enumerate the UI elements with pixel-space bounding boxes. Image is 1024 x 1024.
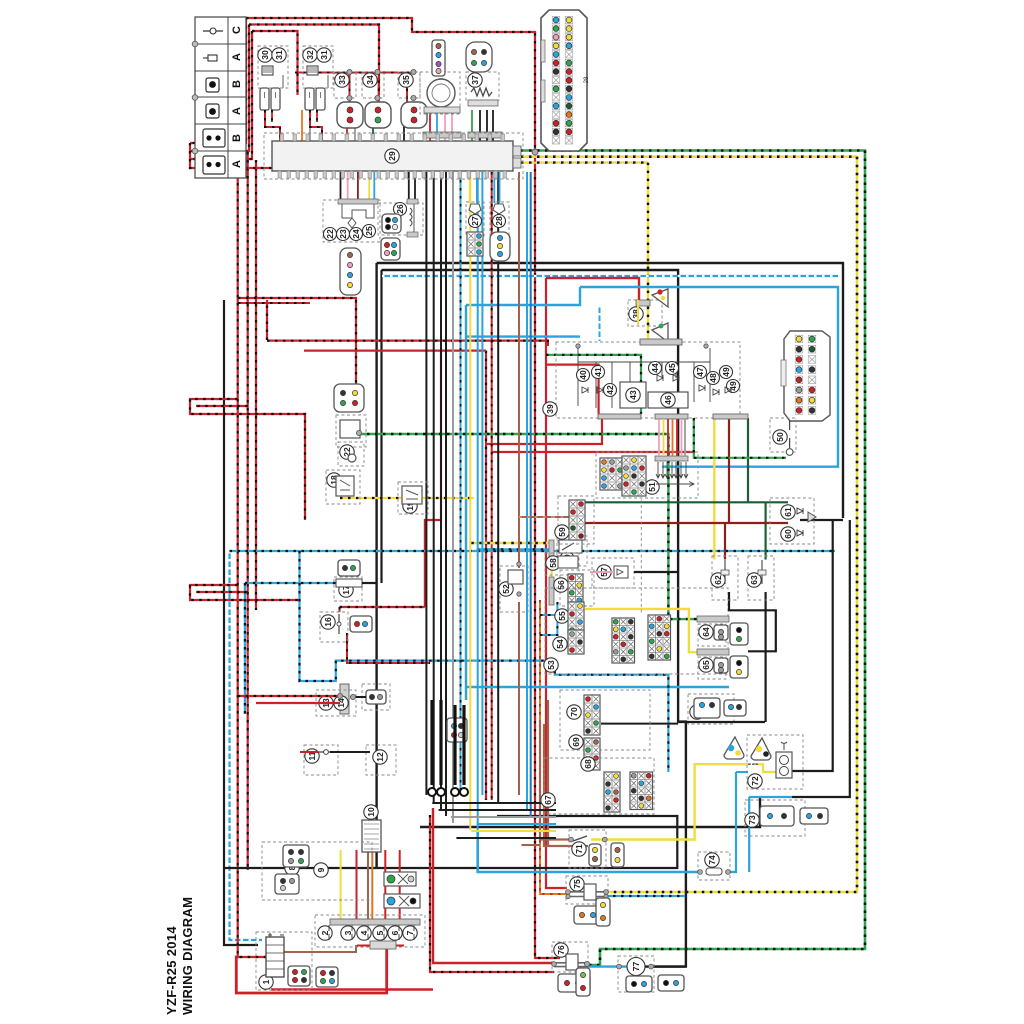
svg-text:26: 26 — [395, 204, 405, 214]
wire R 16 drop — [339, 607, 341, 612]
box 18 — [326, 470, 360, 504]
meter circuit — [578, 348, 710, 408]
svg-text:62: 62 — [713, 575, 723, 585]
label 71 — [572, 842, 586, 856]
wire bundle 1 — [433, 172, 435, 802]
label 13 — [319, 696, 333, 710]
label 23 — [337, 228, 350, 241]
label 16 — [321, 615, 335, 629]
wire LB 54 — [540, 602, 557, 635]
svg-text:31: 31 — [319, 50, 329, 60]
label 2 — [318, 926, 332, 940]
wire updrop — [479, 110, 481, 141]
connector 66a — [694, 698, 720, 718]
wire R stair3 — [190, 31, 252, 159]
box 38 — [628, 300, 662, 326]
junction — [356, 430, 361, 435]
label 45 — [666, 362, 679, 375]
wire Y mid — [340, 497, 474, 499]
label 66 — [690, 705, 704, 719]
diode — [725, 387, 731, 393]
wire Y to meter — [647, 163, 649, 341]
wire coil wire — [327, 75, 329, 88]
box 74 — [698, 852, 730, 880]
wire updrop — [429, 110, 431, 141]
wire L/B 75 — [605, 895, 686, 897]
label 76 — [554, 943, 568, 957]
connector 27 — [467, 232, 483, 256]
label 21 — [341, 423, 355, 437]
label 22 — [340, 445, 354, 459]
wire R left3 — [255, 160, 257, 610]
connector oval — [466, 42, 492, 72]
strip 36 — [423, 132, 461, 138]
label 65 — [699, 658, 713, 672]
connector 66b — [724, 700, 746, 716]
label 31 — [272, 48, 286, 62]
wire R rail3 — [252, 31, 298, 95]
svg-text:55: 55 — [557, 611, 567, 621]
label 43 — [626, 388, 640, 402]
box 53 — [545, 588, 728, 674]
wire R 13 feed2 — [256, 702, 340, 704]
bar 22 — [338, 199, 378, 204]
wire DR 62 — [724, 523, 726, 560]
wire Y 38 — [637, 300, 639, 325]
label 52 — [499, 582, 513, 596]
svg-text:24: 24 — [351, 229, 361, 239]
svg-text:10: 10 — [366, 807, 376, 817]
svg-text:77: 77 — [631, 962, 641, 972]
label 42 — [604, 384, 617, 397]
horn 72 — [776, 742, 792, 778]
connector 16 — [350, 616, 372, 632]
label 61 — [781, 505, 795, 519]
wire R mid a — [546, 278, 639, 302]
svg-text:72: 72 — [750, 776, 760, 786]
connector 26a — [382, 214, 401, 233]
svg-text:52: 52 — [501, 584, 511, 594]
svg-text:73: 73 — [747, 815, 757, 825]
wire meter drop — [684, 419, 686, 456]
ECU connector 29 — [541, 10, 587, 151]
wire updrop — [492, 110, 494, 141]
switch arm 71 — [573, 836, 587, 841]
relay 75 — [568, 884, 606, 900]
box 66 — [688, 694, 734, 724]
box 63 — [748, 556, 774, 600]
meter bottom bar3 — [713, 414, 748, 419]
wire drop — [347, 172, 349, 199]
box 36 — [420, 72, 460, 114]
wire LB 55 — [540, 614, 568, 616]
wire updrop — [436, 110, 438, 141]
relay 19 — [402, 486, 422, 504]
box 30/31 — [258, 46, 288, 88]
starter 77 — [627, 958, 645, 976]
box 22-25 — [323, 200, 380, 242]
wire R coil32 out — [310, 110, 322, 141]
box 28 — [264, 133, 523, 179]
wire R stair low — [190, 585, 300, 600]
label 57 — [597, 565, 611, 579]
label 50 — [773, 430, 787, 444]
connector 28s — [490, 232, 510, 261]
bar 20a — [549, 540, 554, 556]
wire Br 59 — [519, 516, 553, 518]
wire R coil30 out — [265, 110, 280, 141]
injector 34 — [365, 102, 391, 128]
label 37 — [468, 73, 482, 87]
wire bstair 2 — [451, 816, 556, 818]
junction — [602, 837, 607, 842]
wire B 77 — [643, 965, 686, 967]
connector 77a — [626, 976, 652, 992]
wire updrop — [403, 110, 405, 141]
box 65 — [698, 657, 726, 679]
svg-text:65: 65 — [701, 660, 711, 670]
fuse 3 — [351, 925, 353, 940]
wire bundle 10 — [530, 172, 532, 816]
junction — [532, 149, 538, 155]
connector 71b — [611, 843, 624, 867]
label 24 — [350, 228, 363, 241]
svg-text:70: 70 — [569, 707, 579, 717]
svg-text:34: 34 — [365, 75, 375, 85]
wire R v486 — [485, 351, 487, 800]
wire B 827 — [420, 797, 760, 827]
junction — [517, 592, 521, 596]
switch 20 — [559, 540, 582, 553]
label 19 — [403, 499, 417, 513]
wire drop — [476, 172, 478, 203]
wire DG meter — [747, 418, 749, 502]
fuse 71y — [748, 763, 756, 765]
wire B 723L — [601, 723, 678, 725]
junction — [566, 894, 570, 898]
svg-text:28: 28 — [584, 76, 590, 83]
wire drop — [499, 172, 501, 203]
svg-text:71: 71 — [574, 844, 584, 854]
wire B long top — [377, 263, 843, 518]
svg-text:B: B — [231, 80, 243, 88]
svg-text:35: 35 — [401, 75, 411, 85]
connector 8b — [275, 874, 299, 894]
label 7 — [403, 926, 417, 940]
wire R to76 — [433, 808, 554, 963]
wire drop — [373, 172, 375, 199]
box 15 — [362, 684, 390, 710]
bar 38 — [636, 300, 650, 306]
svg-text:41: 41 — [593, 367, 603, 377]
wire R mainfuse — [357, 945, 404, 947]
svg-text:76: 76 — [556, 945, 566, 955]
wire B 722 — [678, 721, 765, 723]
fuse 4 — [367, 925, 369, 940]
battery 1 — [266, 933, 284, 977]
label 11 — [305, 749, 319, 763]
switch 17 — [336, 579, 362, 587]
wire L/W drop — [599, 305, 601, 341]
wire R stair mid2 — [196, 405, 248, 407]
svg-text:46: 46 — [663, 395, 673, 405]
relay 76 — [554, 954, 588, 970]
label 41 — [592, 366, 605, 379]
wire bstair 4 — [471, 830, 556, 832]
label 49 — [727, 380, 740, 393]
box 39 — [556, 342, 740, 418]
junction — [375, 69, 380, 74]
wire B 61 link — [800, 519, 843, 521]
wire drop — [469, 172, 471, 203]
svg-text:16: 16 — [323, 617, 333, 627]
diode 61 — [797, 508, 803, 514]
box 26 — [378, 203, 423, 235]
wire R 452 — [492, 451, 695, 453]
svg-text:45: 45 — [667, 363, 677, 373]
arrows 51 — [656, 462, 694, 487]
wire L 66 — [466, 686, 729, 688]
box 33 — [334, 72, 356, 98]
wire updrop — [471, 110, 473, 141]
plug — [305, 88, 314, 110]
box 43 — [620, 382, 646, 408]
label 5 — [373, 926, 387, 940]
box 56 — [560, 570, 594, 606]
wire R mid b — [267, 341, 548, 346]
svg-text:30: 30 — [260, 50, 270, 60]
label 9 — [314, 863, 328, 877]
bell 28 — [493, 204, 505, 214]
fuse 74 — [706, 868, 722, 875]
connector 75a — [574, 906, 602, 924]
svg-text:74: 74 — [707, 855, 717, 865]
wire L/B box — [300, 551, 669, 772]
box 51 — [596, 452, 698, 498]
wire Y horn2 — [756, 764, 776, 772]
wire L 73 h — [749, 796, 792, 798]
connector 65a — [714, 658, 728, 673]
svg-text:47: 47 — [695, 367, 705, 377]
label 70 — [567, 705, 581, 719]
box 50 — [770, 418, 796, 452]
junction — [617, 964, 622, 969]
circuit 22 — [342, 204, 374, 228]
wire R vert 546 — [546, 278, 567, 888]
wire meter drop — [672, 419, 674, 456]
fuse 7 — [413, 925, 415, 940]
svg-text:50: 50 — [775, 432, 785, 442]
wire bstair 0 — [432, 802, 556, 804]
wire drop — [368, 172, 370, 199]
junction — [698, 870, 703, 875]
label 4 — [357, 926, 371, 940]
box 27 — [466, 202, 484, 236]
wire fuse feed — [356, 850, 358, 921]
diode — [582, 387, 588, 393]
wire R meter — [546, 365, 599, 414]
box 71 — [569, 830, 606, 868]
box 16 — [320, 612, 348, 642]
wire R battery loop — [236, 945, 386, 993]
relay 9b — [384, 894, 420, 908]
coil — [262, 66, 273, 75]
relay 18 — [336, 476, 354, 496]
connector 73b — [800, 808, 828, 824]
svg-text:54: 54 — [555, 639, 565, 649]
connector 55 — [568, 602, 584, 634]
wire drop — [340, 172, 342, 199]
svg-text:44: 44 — [650, 363, 660, 373]
connector 68a — [604, 772, 620, 812]
label 39 — [543, 402, 557, 416]
svg-text:29: 29 — [387, 151, 397, 161]
wire fuse feed — [399, 850, 401, 921]
wire R stair mid — [190, 399, 305, 520]
wire bundle 8 — [497, 172, 499, 802]
wire drop — [493, 172, 495, 203]
label 22 — [324, 228, 337, 241]
wire R main rail — [246, 18, 560, 958]
wire updrop — [309, 110, 311, 141]
connector 69 — [584, 738, 600, 770]
fuse 6 — [398, 925, 400, 940]
label 3 — [341, 926, 355, 940]
wire B vert 381 — [380, 270, 382, 583]
svg-text:67: 67 — [543, 795, 553, 805]
wire R 13 feed — [238, 695, 340, 697]
connector 75b — [596, 898, 610, 926]
junction — [566, 890, 571, 895]
svg-text:1: 1 — [261, 979, 271, 984]
junction 61 — [808, 512, 816, 522]
injector 35 — [401, 102, 427, 128]
label 74 — [705, 853, 719, 867]
wire R bat1 — [271, 988, 433, 990]
wire B 17 — [362, 582, 377, 584]
wire L 73 v — [748, 797, 750, 872]
box 52 — [508, 570, 523, 584]
wire meter drop — [681, 419, 683, 456]
label 10 — [364, 805, 378, 819]
label 53 — [544, 658, 558, 672]
dashed link 51-switch — [640, 494, 642, 615]
wire R 16 out — [347, 633, 430, 663]
label 51 — [645, 480, 659, 494]
junction — [337, 693, 342, 698]
wire meter drop — [658, 419, 660, 456]
wire R mid b2 — [266, 300, 268, 340]
wire R v492 — [491, 172, 493, 800]
svg-text:28: 28 — [494, 216, 504, 226]
box 77 — [618, 956, 654, 992]
junction — [604, 890, 609, 895]
svg-text:53: 53 — [546, 660, 556, 670]
cylinder 10 — [362, 820, 381, 852]
wire G mid — [359, 434, 697, 619]
label 73 — [745, 813, 759, 827]
svg-text:32: 32 — [305, 50, 315, 60]
label 25 — [363, 225, 376, 238]
wire G meter — [546, 355, 641, 414]
label 18 — [327, 473, 341, 487]
diode 57 — [614, 566, 628, 578]
bar 64 — [697, 616, 729, 622]
connector bat2 — [316, 967, 338, 987]
svg-text:31: 31 — [274, 50, 284, 60]
wire drop — [414, 172, 416, 199]
wire B left — [224, 300, 258, 945]
label 63 — [747, 573, 761, 587]
connector 77b — [658, 975, 684, 991]
svg-text:39: 39 — [545, 404, 555, 414]
injector 33 — [337, 102, 363, 128]
label 33 — [335, 73, 349, 87]
box 60/61 — [770, 498, 814, 544]
box 73 — [745, 800, 805, 836]
svg-text:37: 37 — [470, 75, 480, 85]
junction — [604, 894, 608, 898]
wire bundle 6 — [477, 172, 479, 837]
wire L/B long 551 — [230, 550, 836, 552]
label 75 — [570, 877, 584, 891]
wire bundle 2 — [440, 172, 442, 809]
wire R left1 — [238, 143, 268, 957]
svg-text:B: B — [231, 134, 243, 142]
plug — [316, 88, 325, 110]
wire B dash 66 — [382, 270, 686, 967]
wire bundle 7 — [481, 172, 483, 795]
svg-text:22: 22 — [325, 229, 335, 239]
switch 16 — [338, 614, 340, 634]
wire L/W long — [382, 275, 838, 277]
connector 76b — [576, 968, 590, 996]
plug — [271, 88, 280, 110]
label 27 — [469, 215, 482, 228]
bell 27 — [469, 204, 481, 214]
junction — [576, 344, 580, 348]
label 6 — [388, 926, 402, 940]
diode — [657, 375, 663, 381]
svg-text:58: 58 — [548, 558, 558, 568]
flasher 38b — [652, 323, 668, 342]
wire R 11 — [300, 751, 318, 753]
label 20 — [560, 552, 574, 566]
fuse 72 — [748, 763, 758, 765]
box 64 — [698, 624, 726, 646]
svg-text:43: 43 — [628, 390, 638, 400]
box 52 — [500, 566, 528, 612]
svg-text:59: 59 — [557, 527, 567, 537]
wire G 50 — [694, 418, 786, 458]
box 46 — [648, 392, 688, 408]
diode — [597, 387, 603, 393]
connector 51a — [600, 458, 624, 490]
connector o2 — [340, 248, 361, 295]
junction — [411, 95, 416, 100]
wire bundle 9 — [526, 172, 528, 809]
svg-text:25: 25 — [364, 226, 374, 236]
plug — [260, 88, 269, 110]
box fuses — [315, 915, 425, 947]
wire R coil32 out2 — [316, 110, 318, 122]
wire P 57 — [590, 571, 614, 573]
wire R 303 — [238, 302, 310, 304]
fuse 5 — [383, 925, 385, 940]
wire B 816 — [377, 816, 678, 868]
wire meter drop — [667, 419, 669, 456]
connector 64b — [730, 623, 748, 645]
